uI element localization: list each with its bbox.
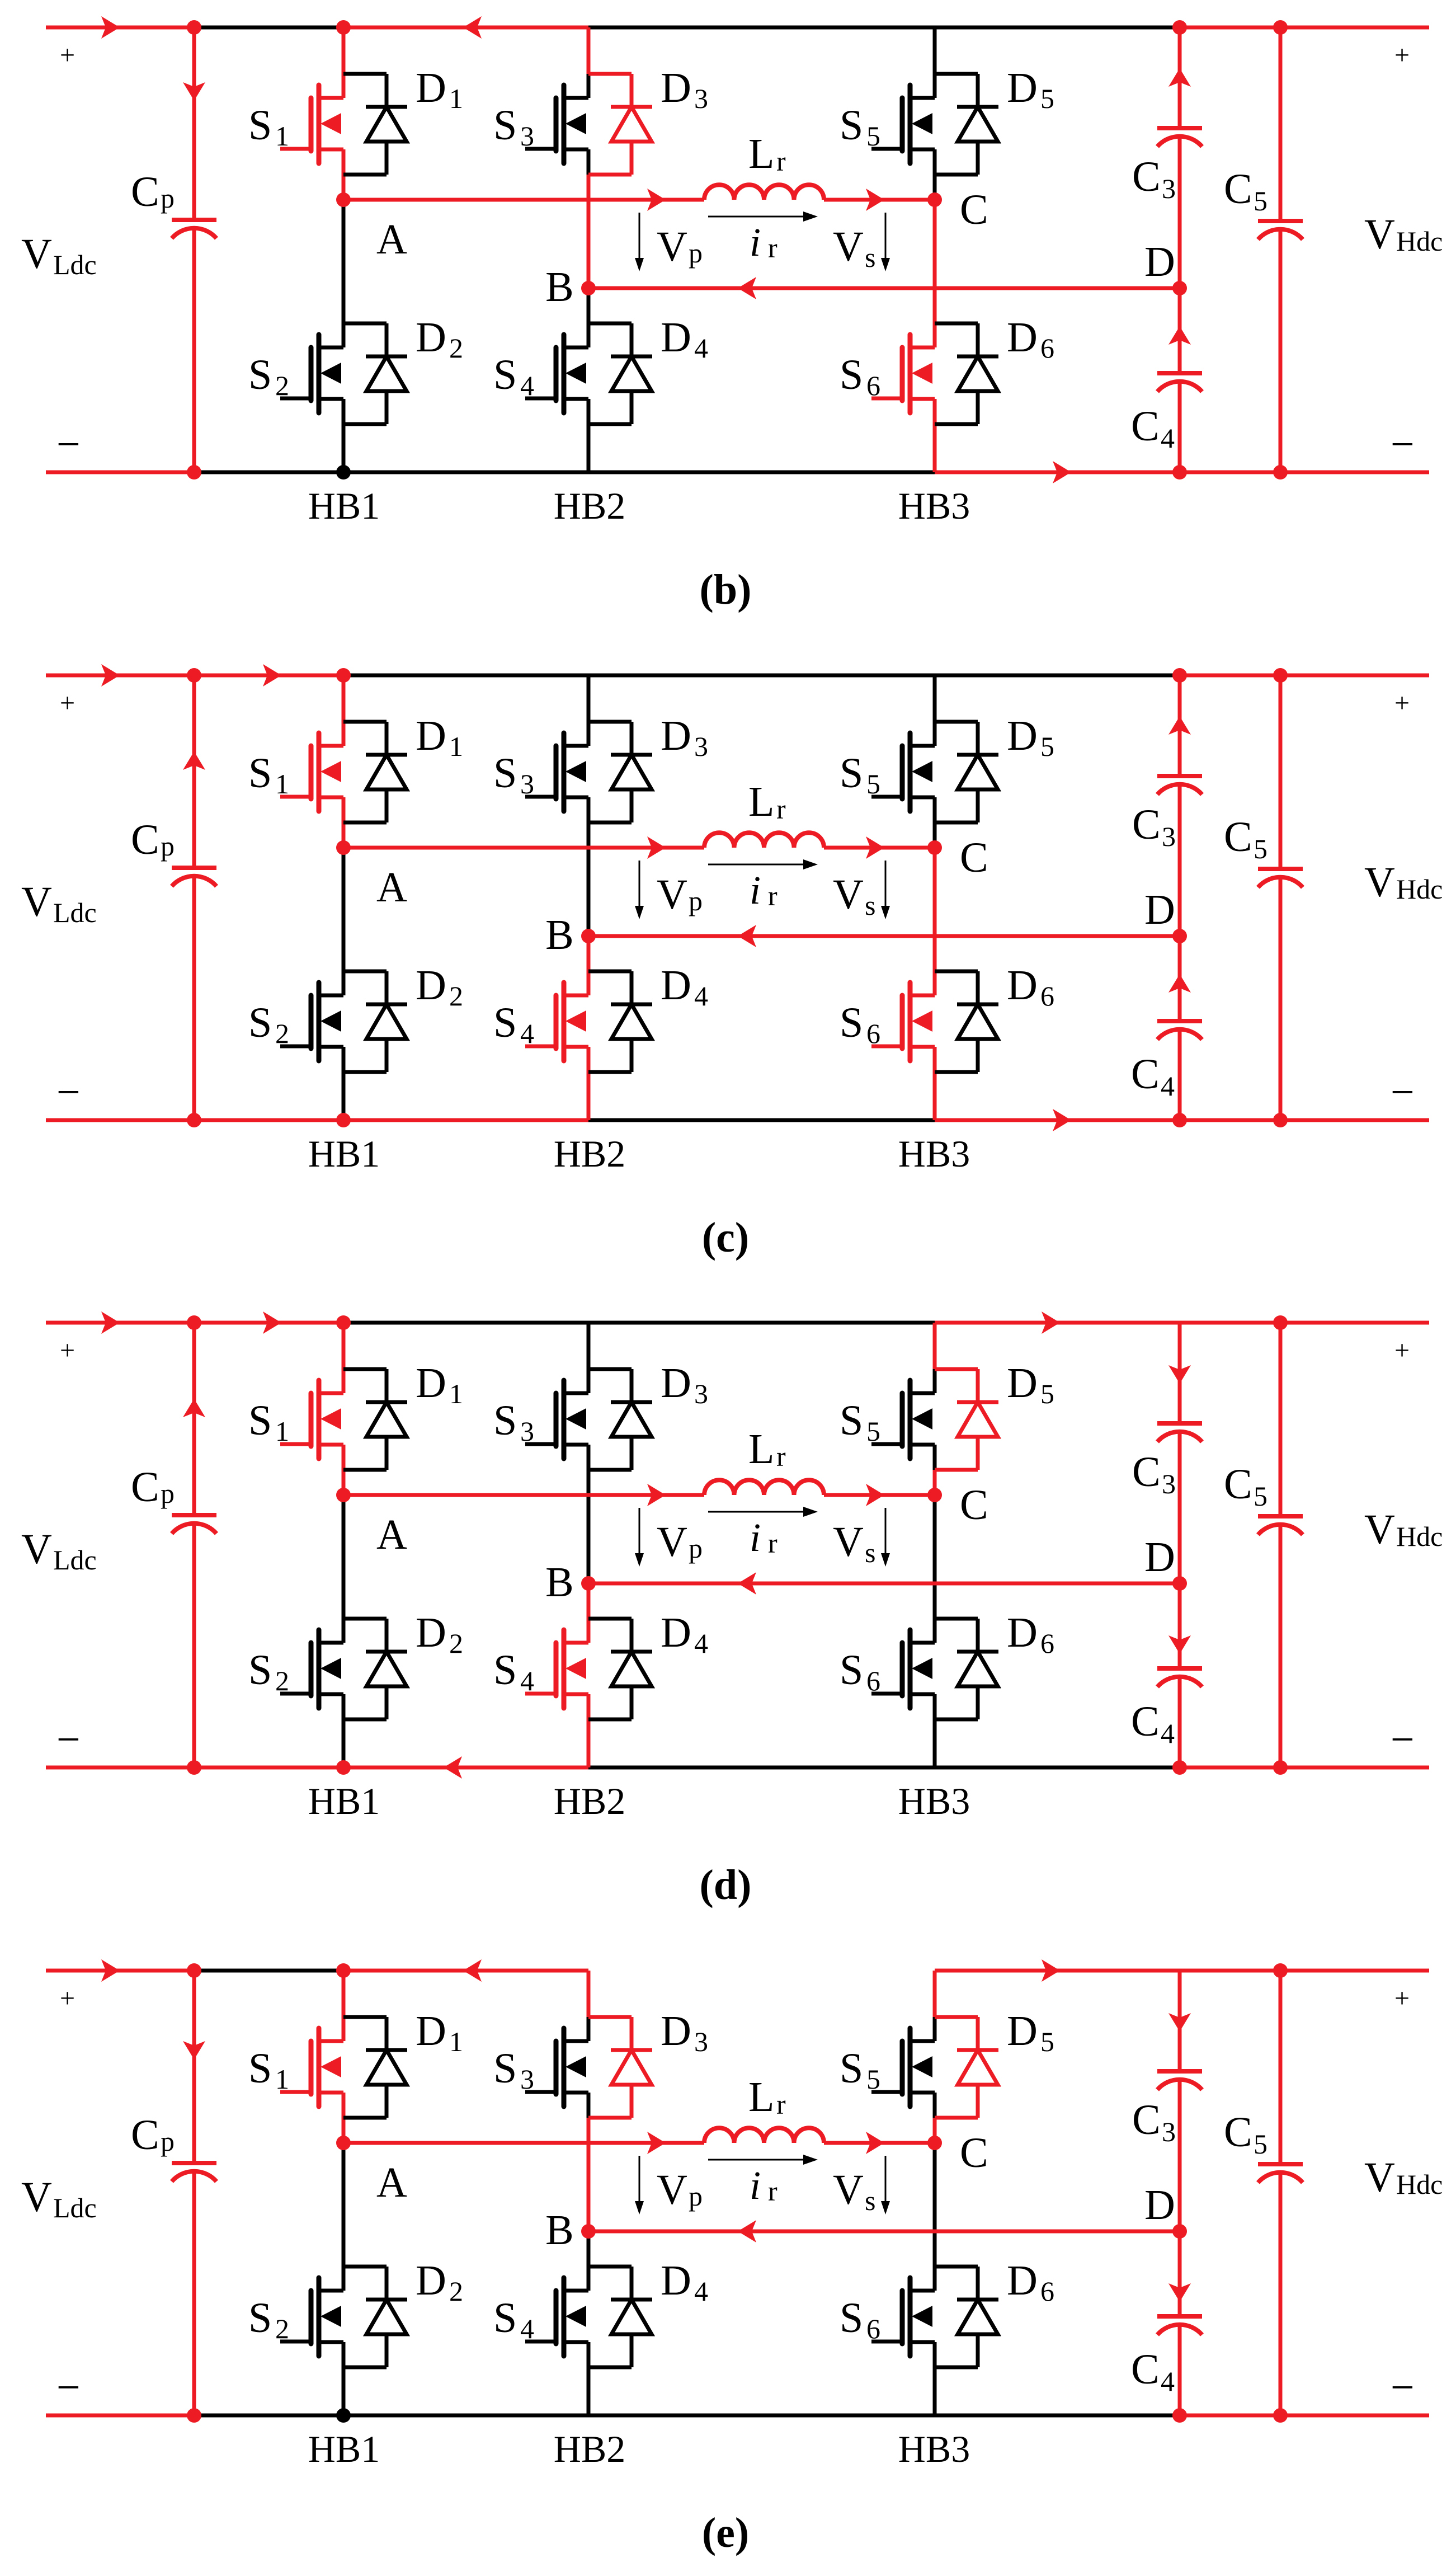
wire bottom rail 82-347 (c): [46, 1118, 194, 1122]
svg-text:HB1: HB1: [308, 485, 380, 527]
svg-text:r: r: [768, 2175, 778, 2207]
svg-text:4: 4: [694, 1628, 708, 1659]
transistor S6 (d): [871, 1630, 935, 1708]
node node C (b): [927, 192, 942, 207]
wire top rail 347-614 (d): [194, 1321, 343, 1325]
wire HB3 upper leg b (d): [933, 1369, 937, 1393]
wire bottom rail 2289-2555 (b): [1280, 471, 1429, 474]
svg-text:C: C: [1224, 1461, 1252, 1508]
arrow bottom-right current (b): [1053, 461, 1071, 483]
label D1 text (c): [416, 712, 463, 762]
svg-text:B: B: [545, 2207, 574, 2254]
wire top rail 1052-1671 (b): [588, 26, 935, 30]
wire top rail 2109-2289 (b): [1180, 26, 1280, 30]
wire HB1 S1 drain leg (c): [342, 675, 346, 746]
svg-text:D: D: [661, 64, 691, 111]
arrow Vp polarity (d): [635, 1508, 644, 1567]
svg-text:i: i: [750, 1515, 761, 1560]
wire bottom rail 1671-2109 (d): [935, 1766, 1180, 1770]
svg-text:Ldc: Ldc: [53, 897, 97, 928]
label C3 text (c): [1132, 801, 1176, 852]
wire bottom rail 82-347 (e): [46, 2414, 194, 2418]
transistor S5 (b): [871, 85, 935, 163]
label sub-figure letter (e): [702, 2509, 749, 2556]
transistor S1 (c): [280, 733, 343, 811]
svg-text:C: C: [1131, 403, 1160, 450]
arrow resonant current ir (b): [708, 211, 818, 222]
label VHdc (e): [1364, 2154, 1443, 2201]
svg-text:V: V: [21, 1526, 52, 1573]
wire D6 frame (b): [935, 323, 978, 424]
svg-text:Ldc: Ldc: [53, 249, 97, 280]
arrow C4 current up (c): [1168, 974, 1191, 993]
label node C text (e): [960, 2129, 988, 2176]
svg-text:4: 4: [520, 1018, 534, 1049]
wire C5 leg lower (c): [1279, 879, 1283, 1120]
wire HB3 S6 source leg (b): [933, 399, 937, 472]
node node C (c): [927, 840, 942, 855]
svg-text:S: S: [248, 750, 272, 797]
label D6 text (e): [1007, 2257, 1054, 2307]
svg-text:+: +: [1394, 1336, 1410, 1365]
wire HB3 upper leg a (d): [933, 1323, 937, 1369]
svg-text:S: S: [493, 2295, 517, 2342]
svg-text:+: +: [1394, 40, 1410, 70]
svg-text:HB3: HB3: [898, 2428, 970, 2470]
node junction bottom C5 (c): [1273, 1113, 1288, 1127]
label HB1 text (e): [308, 2428, 380, 2470]
label D2 text (b): [416, 314, 463, 364]
diode D6 (b): [957, 323, 998, 424]
svg-text:D: D: [1144, 1534, 1175, 1581]
wire HB2 mid leg b (c): [587, 822, 591, 936]
wire HB3 S6 source leg (c): [933, 1047, 937, 1120]
wire HB3 S5 source leg b (d): [933, 1470, 937, 1495]
svg-text:D: D: [416, 314, 446, 361]
arrow B-line current (c): [738, 925, 756, 947]
arrow top-right current (e): [1042, 1959, 1060, 1982]
label Lr text (e): [748, 2074, 786, 2121]
wire C3 leg upper (c): [1178, 675, 1182, 776]
svg-text:5: 5: [866, 1416, 880, 1447]
svg-text:L: L: [748, 778, 774, 825]
diode D5 (d): [957, 1369, 998, 1470]
label D6 text (b): [1007, 314, 1054, 364]
arrow A-line current 2 (e): [866, 2132, 884, 2154]
label VLdc (b): [21, 231, 97, 280]
label D5 text (d): [1007, 1360, 1054, 1409]
svg-text:(e): (e): [702, 2509, 749, 2556]
svg-text:HB1: HB1: [308, 2428, 380, 2470]
transistor S3 (b): [525, 85, 588, 163]
label node C text (b): [960, 186, 988, 233]
wire C3 leg lower (e): [1178, 2081, 1182, 2231]
transistor S6 (e): [871, 2278, 935, 2356]
svg-text:p: p: [161, 2126, 175, 2157]
label D3 text (b): [661, 64, 708, 114]
wire HB2 upper leg a (d): [587, 1323, 591, 1369]
label D1 text (d): [416, 1360, 463, 1409]
wire bottom rail 2109-2289 (d): [1180, 1766, 1280, 1770]
node node D (c): [1172, 929, 1187, 943]
arrow C4 current down (e): [1168, 2283, 1191, 2302]
wire bottom rail 347-614 (d): [194, 1766, 343, 1770]
wire D3 frame (b): [588, 74, 632, 175]
svg-text:6: 6: [866, 1018, 880, 1049]
wire D1 frame (b): [343, 74, 387, 175]
arrow top-mid current (d): [263, 1311, 281, 1334]
wire HB1 S1 source leg (c): [342, 797, 346, 848]
svg-text:(d): (d): [700, 1861, 752, 1908]
diode D1 (c): [366, 722, 407, 822]
svg-text:2: 2: [449, 1628, 463, 1659]
wire HB3 S5 source leg b (e): [933, 2118, 937, 2143]
label ir text (d): [750, 1515, 778, 1560]
svg-text:D: D: [1144, 886, 1175, 933]
wire HB2 mid leg b (d): [587, 1470, 591, 1583]
node junction bottom HB1 (c): [336, 1113, 351, 1127]
svg-text:i: i: [750, 868, 761, 913]
wire D2 frame (c): [343, 971, 387, 1072]
wire node A line left (c): [343, 846, 704, 850]
label sub-figure letter (c): [702, 1214, 749, 1261]
transistor S5 (e): [871, 2028, 935, 2107]
svg-text:s: s: [865, 1537, 875, 1568]
svg-text:p: p: [689, 885, 703, 916]
svg-text:3: 3: [694, 731, 708, 762]
label ir text (c): [750, 868, 778, 913]
wire HB2 S4 drain leg (e): [587, 2231, 591, 2291]
wire HB2 mid leg a (b): [587, 149, 591, 175]
wire bottom rail 82-347 (b): [46, 471, 194, 474]
wire HB3 upper leg a (e): [933, 1971, 937, 2017]
label S6 text (d): [840, 1647, 880, 1696]
wire HB2 S4 source leg (e): [587, 2342, 591, 2415]
node junction top C5 (c): [1273, 668, 1288, 683]
label node B text (b): [545, 264, 574, 311]
svg-text:3: 3: [520, 2063, 534, 2095]
svg-text:L: L: [748, 1426, 774, 1473]
label Vp text (d): [657, 1518, 703, 1565]
wire top rail 82-347 (b): [46, 26, 194, 30]
wire D5 frame (d): [935, 1369, 978, 1470]
wire top rail 2109-2289 (d): [1180, 1321, 1280, 1325]
wire HB1 S2 drain leg (c): [342, 848, 346, 995]
diode D4 (e): [611, 2267, 652, 2367]
svg-text:+: +: [1394, 1983, 1410, 2013]
wire HB2 upper leg b (c): [587, 722, 591, 746]
transistor S4 (d): [525, 1630, 588, 1708]
transistor S6 (b): [871, 335, 935, 413]
svg-text:D: D: [1007, 1360, 1038, 1407]
wire D1 frame (e): [343, 2017, 387, 2118]
wire HB3 S5 source leg a (d): [933, 1445, 937, 1470]
svg-text:A: A: [376, 1511, 407, 1558]
node junction top HB1 (d): [336, 1315, 351, 1330]
svg-text:3: 3: [1162, 1468, 1176, 1499]
node junction bottom Cp (e): [187, 2408, 201, 2423]
diode D5 (e): [957, 2017, 998, 2118]
label Cp (d): [131, 1464, 175, 1511]
inductor Lr: [704, 2128, 824, 2143]
wire C5 leg upper (e): [1279, 1971, 1283, 2164]
svg-text:2: 2: [275, 1665, 289, 1696]
wire Cp leg lower (e): [192, 2173, 196, 2415]
wire D6 frame (c): [935, 971, 978, 1072]
label node D text (b): [1144, 238, 1175, 285]
svg-text:Hdc: Hdc: [1396, 1521, 1443, 1552]
arrow top return current (e): [463, 1959, 482, 1982]
node junction bottom C5 (e): [1273, 2408, 1288, 2423]
svg-text:1: 1: [275, 120, 289, 152]
svg-text:S: S: [248, 1647, 272, 1694]
wire bottom rail 614-1052 (e): [343, 2414, 588, 2418]
inductor Lr: [704, 185, 824, 200]
wire D6 frame (e): [935, 2267, 978, 2367]
wire HB1 S1 drain leg (d): [342, 1323, 346, 1393]
wire node A line left (e): [343, 2141, 704, 2145]
svg-text:1: 1: [449, 2026, 463, 2057]
arrow A-line current 1 (d): [647, 1484, 666, 1506]
svg-text:1: 1: [275, 768, 289, 800]
inductor Lr: [704, 1480, 824, 1495]
label Lr text (c): [748, 778, 786, 825]
svg-text:C: C: [131, 816, 159, 863]
label D4 text (e): [661, 2257, 708, 2307]
svg-text:B: B: [545, 264, 574, 311]
wire HB2 S4 drain leg (d): [587, 1583, 591, 1643]
wire HB2 S4 drain leg (b): [587, 288, 591, 347]
node junction bottom C5 (d): [1273, 1760, 1288, 1775]
wire D4 frame (d): [588, 1619, 632, 1719]
label D5 text (c): [1007, 712, 1054, 762]
svg-text:S: S: [248, 999, 272, 1046]
arrow resonant current ir (d): [708, 1507, 818, 1517]
wire bottom rail 347-614 (b): [194, 471, 343, 474]
svg-text:5: 5: [1040, 2026, 1054, 2057]
wire HB3 upper leg a (c): [933, 675, 937, 722]
label HB2 text (d): [554, 1780, 625, 1822]
node junction bottom Cp (d): [187, 1760, 201, 1775]
capacitor C3 (d): [1157, 1423, 1202, 1442]
label S4 text (e): [493, 2295, 534, 2344]
svg-text:B: B: [545, 1559, 574, 1606]
wire bottom rail 347-614 (c): [194, 1118, 343, 1122]
label C4 text (d): [1131, 1698, 1175, 1749]
svg-text:−: −: [1391, 2364, 1415, 2411]
arrow C3 current up (c): [1168, 716, 1191, 735]
label polarity - left (c): [56, 1069, 81, 1116]
svg-text:S: S: [493, 750, 517, 797]
svg-text:4: 4: [520, 2313, 534, 2344]
svg-text:1: 1: [449, 83, 463, 114]
wire HB3 S5 source leg a (b): [933, 149, 937, 175]
wire bottom rail 82-347 (d): [46, 1766, 194, 1770]
arrow C3 current down (e): [1168, 2013, 1191, 2032]
svg-text:S: S: [248, 351, 272, 398]
svg-text:D: D: [1144, 2182, 1175, 2229]
wire top rail 347-614 (c): [194, 674, 343, 678]
node node A (d): [336, 1488, 351, 1502]
label polarity - right (e): [1391, 2364, 1415, 2411]
arrow B-line current (d): [738, 1572, 756, 1595]
diode D1 (b): [366, 74, 407, 175]
label polarity + right (d): [1394, 1336, 1410, 1365]
svg-text:6: 6: [866, 370, 880, 401]
node junction bottom C4 (b): [1172, 465, 1187, 479]
svg-text:+: +: [1394, 688, 1410, 718]
node junction top HB1 (c): [336, 668, 351, 683]
arrow Cp charge current e (e): [183, 2041, 205, 2060]
capacitor C3 (b): [1157, 128, 1202, 147]
label polarity + left (b): [60, 40, 75, 70]
label S4 text (d): [493, 1647, 534, 1696]
arrow Cp discharge current (d): [183, 1399, 205, 1417]
arrow Vp polarity (c): [635, 861, 644, 919]
transistor S2 (e): [280, 2278, 343, 2356]
node junction top Cp (d): [187, 1315, 201, 1330]
wire top rail 1671-2109 (d): [935, 1321, 1180, 1325]
node junction top HB1 (b): [336, 20, 351, 35]
transistor S1 (e): [280, 2028, 343, 2107]
arrow Vp polarity (b): [635, 213, 644, 271]
transistor S1 (d): [280, 1380, 343, 1459]
diode D3 (d): [611, 1369, 652, 1470]
wire bottom rail 614-1052 (d): [343, 1766, 588, 1770]
svg-text:V: V: [833, 2166, 864, 2213]
arrow A-line current 2 (d): [866, 1484, 884, 1506]
svg-text:C: C: [1131, 1051, 1160, 1098]
diode D3 (e): [611, 2017, 652, 2118]
wire D5 frame (b): [935, 74, 978, 175]
label S2 text (d): [248, 1647, 289, 1696]
svg-text:HB3: HB3: [898, 485, 970, 527]
svg-text:S: S: [248, 2295, 272, 2342]
arrow top-left current (e): [101, 1959, 120, 1982]
label S5 text (b): [840, 102, 880, 152]
wire bottom rail 1671-2109 (c): [935, 1118, 1180, 1122]
label D3 text (d): [661, 1360, 708, 1409]
svg-text:D: D: [416, 2007, 446, 2054]
label polarity - right (d): [1391, 1716, 1415, 1763]
diode D2 (e): [366, 2267, 407, 2367]
wire HB3 S6 drain leg (b): [933, 200, 937, 347]
svg-text:V: V: [833, 223, 864, 270]
wire node A line right (d): [824, 1493, 935, 1497]
svg-text:L: L: [748, 130, 774, 177]
wire HB1 S2 drain leg (e): [342, 2143, 346, 2291]
node node B (d): [581, 1576, 596, 1591]
wire top rail 1671-2109 (b): [935, 26, 1180, 30]
wire bottom rail 2109-2289 (c): [1180, 1118, 1280, 1122]
capacitor C4 (d): [1157, 1668, 1202, 1687]
label HB1 text (b): [308, 485, 380, 527]
diode D4 (d): [611, 1619, 652, 1719]
label S4 text (c): [493, 999, 534, 1049]
svg-text:D: D: [1007, 64, 1038, 111]
node node C (e): [927, 2136, 942, 2150]
svg-text:V: V: [21, 2174, 52, 2221]
arrow B-line current (e): [738, 2220, 756, 2242]
wire HB1 S1 drain leg (b): [342, 27, 346, 98]
wire C3 leg upper (d): [1178, 1323, 1182, 1423]
label polarity - left (b): [56, 421, 81, 468]
svg-text:C: C: [1132, 153, 1161, 200]
wire HB2 mid leg a (e): [587, 2093, 591, 2118]
svg-text:V: V: [657, 2166, 687, 2213]
wire Cp leg lower (d): [192, 1525, 196, 1767]
svg-text:S: S: [248, 2045, 272, 2092]
label D5 text (e): [1007, 2007, 1054, 2057]
wire HB2 S4 source leg (c): [587, 1047, 591, 1120]
svg-text:5: 5: [1254, 2128, 1267, 2160]
label S6 text (b): [840, 351, 880, 401]
arrow top-left current (c): [101, 664, 120, 687]
wire C4 leg upper (d): [1178, 1583, 1182, 1668]
svg-text:r: r: [776, 2089, 786, 2120]
svg-text:+: +: [60, 1983, 75, 2013]
svg-text:(c): (c): [702, 1214, 749, 1261]
svg-text:D: D: [661, 1360, 691, 1407]
wire HB2 mid leg a (d): [587, 1445, 591, 1470]
label Vs text (c): [833, 871, 875, 921]
arrow top-right current (d): [1042, 1311, 1060, 1334]
transistor S3 (c): [525, 733, 588, 811]
wire D4 frame (c): [588, 971, 632, 1072]
wire HB2 upper leg b (e): [587, 2017, 591, 2041]
label C5 text (d): [1224, 1461, 1267, 1512]
arrow Vs polarity (d): [881, 1508, 890, 1567]
diode D5 (c): [957, 722, 998, 822]
svg-text:B: B: [545, 911, 574, 958]
label Vp text (b): [657, 223, 703, 270]
wire HB2 mid leg b (b): [587, 175, 591, 288]
capacitor C4 (b): [1157, 373, 1202, 392]
wire bottom rail 2109-2289 (b): [1180, 471, 1280, 474]
svg-text:3: 3: [520, 1416, 534, 1447]
node node A (c): [336, 840, 351, 855]
label S6 text (e): [840, 2295, 880, 2344]
label Vp text (e): [657, 2166, 703, 2213]
svg-text:−: −: [1391, 1069, 1415, 1116]
wire HB3 upper leg b (e): [933, 2017, 937, 2041]
svg-text:D: D: [1007, 712, 1038, 759]
transistor S1 (b): [280, 85, 343, 163]
wire HB1 S1 source leg (e): [342, 2093, 346, 2143]
label S3 text (d): [493, 1397, 534, 1447]
label node A text (b): [376, 216, 407, 263]
arrow A-line current 1 (e): [647, 2132, 666, 2154]
svg-text:4: 4: [1161, 422, 1175, 454]
wire HB3 S6 source leg (e): [933, 2342, 937, 2415]
svg-text:C: C: [960, 186, 988, 233]
svg-text:Hdc: Hdc: [1396, 225, 1443, 257]
node junction bottom C4 (e): [1172, 2408, 1187, 2423]
node junction top Cp (e): [187, 1963, 201, 1978]
node junction top Cp (b): [187, 20, 201, 35]
wire C5 leg upper (d): [1279, 1323, 1283, 1516]
node junction top Cp (c): [187, 668, 201, 683]
label polarity - right (c): [1391, 1069, 1415, 1116]
svg-text:V: V: [657, 871, 687, 918]
wire HB2 S4 drain leg (c): [587, 936, 591, 995]
node junction bottom Cp (b): [187, 465, 201, 479]
wire HB2 mid leg a (c): [587, 797, 591, 822]
label Cp (b): [131, 168, 175, 215]
svg-text:D: D: [416, 1609, 446, 1656]
wire C4 leg upper (e): [1178, 2231, 1182, 2316]
transistor S4 (b): [525, 335, 588, 413]
